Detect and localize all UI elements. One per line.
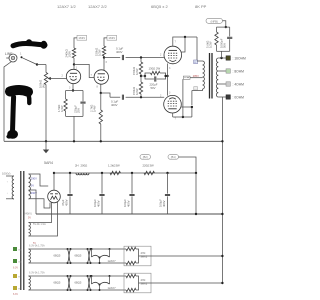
ground symbol xyxy=(43,150,49,154)
svg-text:(B1): (B1) xyxy=(171,155,176,159)
resistor R8 130ohm cathode xyxy=(145,67,166,77)
svg-text:47Ω: 47Ω xyxy=(141,251,146,255)
svg-text:(A): (A) xyxy=(42,84,46,88)
svg-text:130Ω: 130Ω xyxy=(149,67,156,71)
capacitor C8 100uF xyxy=(93,173,104,214)
wire cathode xyxy=(100,84,102,93)
pin 8 label xyxy=(97,86,99,89)
wire NFB loop top xyxy=(217,26,230,28)
label 8OHM xyxy=(233,70,245,74)
wire xyxy=(223,21,226,27)
net label NFB xyxy=(206,18,223,23)
resistor R10 1.2k xyxy=(108,164,121,175)
svg-text:240(V): 240(V) xyxy=(24,212,32,216)
svg-text:6BQ5 x 2: 6BQ5 x 2 xyxy=(151,4,168,9)
label red w2 xyxy=(13,267,18,270)
svg-text:6.3V-0k 1.75A: 6.3V-0k 1.75A xyxy=(29,272,45,275)
svg-text:50V: 50V xyxy=(223,43,227,48)
node upper grid xyxy=(140,56,142,58)
resistor R11 220ohm xyxy=(143,164,155,175)
svg-text:GN: GN xyxy=(18,250,22,252)
node NFB tap xyxy=(220,57,222,59)
triode U1b 12AX7 xyxy=(94,70,108,84)
capacitor C7 47uF xyxy=(61,173,72,214)
wire NFB down xyxy=(221,51,223,58)
wire cathode loop bottom xyxy=(66,115,83,117)
heater 6BQ5 a B xyxy=(54,275,72,291)
rectifier V4 5AR4 xyxy=(48,190,61,203)
svg-text:: 0OHM: : 0OHM xyxy=(233,96,245,100)
color square yellow 2 xyxy=(13,286,21,291)
svg-text:163V: 163V xyxy=(108,36,115,40)
wire cathode loop top xyxy=(66,90,83,92)
wire xyxy=(192,89,203,91)
wire xyxy=(103,56,105,70)
node cathode bus xyxy=(166,75,168,77)
label 285V red xyxy=(193,74,199,78)
svg-text:↑: ↑ xyxy=(7,181,8,184)
PT 5V winding xyxy=(29,223,31,237)
net label B2 xyxy=(140,155,151,160)
PT 6.3V winding B xyxy=(29,276,31,290)
svg-text:6BQ5: 6BQ5 xyxy=(54,254,61,258)
svg-text:3Wx2: 3Wx2 xyxy=(141,282,148,286)
volume pot VR1 100k(A) xyxy=(39,73,52,89)
svg-text:400V: 400V xyxy=(116,50,123,54)
svg-text:1/2W: 1/2W xyxy=(135,88,139,95)
wire screen lower xyxy=(181,107,192,117)
wire heater rail top A xyxy=(29,248,127,250)
wire to ground xyxy=(73,116,75,141)
PSU ground rail xyxy=(36,213,222,215)
node A xyxy=(36,63,38,65)
OPT core xyxy=(210,53,213,99)
svg-text:3Wx2: 3Wx2 xyxy=(141,255,148,259)
pin 1 label xyxy=(76,66,78,69)
resistor R5 2.7k cathode xyxy=(90,93,103,124)
color square yellow 1 xyxy=(13,274,21,279)
wire heater rail top B xyxy=(29,275,127,277)
pin labels V2 xyxy=(160,41,177,71)
node riser psu gnd xyxy=(221,213,223,215)
node c2 xyxy=(101,172,103,174)
marker scribble top xyxy=(11,39,47,49)
svg-text:(B2): (B2) xyxy=(143,155,148,159)
wire xyxy=(74,38,77,48)
wire coupling to V1b grid xyxy=(74,64,94,77)
label 16OHM xyxy=(233,57,246,61)
node tube1 cathode xyxy=(72,89,74,91)
node RC right xyxy=(164,75,166,77)
resistor R2 240k plate xyxy=(65,48,76,58)
svg-text:GN: GN xyxy=(18,262,22,264)
node tube2 cathode xyxy=(100,92,102,94)
node tube2 plate xyxy=(103,56,105,58)
wire heater1 xyxy=(29,202,52,222)
PT primary leads xyxy=(6,176,14,199)
wire HT CT xyxy=(29,190,37,214)
wire hum A xyxy=(151,255,222,257)
jack ground wire xyxy=(4,62,12,142)
label 12AX7 2/2 xyxy=(88,4,107,9)
capacitor C9 100uF xyxy=(123,173,134,214)
svg-text:8K PP: 8K PP xyxy=(195,4,207,9)
label 100V xyxy=(2,172,10,176)
color square green 2 xyxy=(13,259,22,264)
wire NFB loop bottom xyxy=(217,50,230,52)
svg-text:6BQ5: 6BQ5 xyxy=(75,281,82,285)
label 4OHM xyxy=(233,83,245,87)
wire xyxy=(141,75,145,77)
wire plate upper xyxy=(173,37,197,46)
node c4 xyxy=(166,172,168,174)
node c3 xyxy=(131,172,133,174)
svg-text:220Ω: 220Ω xyxy=(143,164,150,168)
voltage box 163V b xyxy=(107,35,117,40)
pentode V2 6BQ5 upper xyxy=(164,46,182,64)
ground stub xyxy=(45,141,47,149)
wire tap 16ohm xyxy=(218,57,226,59)
svg-text:6.3V: 6.3V xyxy=(13,293,18,296)
label 240V xyxy=(24,212,32,220)
svg-text:50V: 50V xyxy=(151,86,156,90)
PT core xyxy=(21,171,24,290)
wire xyxy=(45,65,47,73)
svg-text:(NFB): (NFB) xyxy=(211,19,219,23)
wire tap 4ohm xyxy=(218,83,226,85)
voltage box blue xyxy=(194,60,198,64)
wire xyxy=(52,78,67,80)
label 5AR4 xyxy=(44,161,53,165)
svg-text:3W: 3W xyxy=(116,164,121,168)
choke L1 2H xyxy=(75,164,89,175)
svg-text:1/4W: 1/4W xyxy=(93,105,97,112)
node gnd k2 xyxy=(100,140,102,142)
label LINE xyxy=(5,52,22,57)
resistor R7 150k grid lower xyxy=(132,76,143,97)
PT HT secondary xyxy=(29,174,31,199)
node c1 xyxy=(69,172,71,174)
svg-text:0V: 0V xyxy=(31,184,34,188)
wire HT bottom xyxy=(29,199,51,208)
wire xyxy=(73,58,75,69)
heater 6BQ5 b B xyxy=(75,275,92,291)
label 290V xyxy=(31,176,37,180)
wire xyxy=(126,96,165,98)
marker scribble left xyxy=(6,90,29,139)
wire B+ out xyxy=(53,173,55,190)
resistor R4 150k plate xyxy=(95,46,106,56)
capacitor C4 0.1uF lower xyxy=(111,95,123,107)
wire heater rail bottom A xyxy=(29,262,127,264)
speaker ground riser xyxy=(221,97,223,283)
node bias xyxy=(140,75,142,77)
wire screen upper xyxy=(181,37,185,52)
terminal 8OHM xyxy=(226,69,230,73)
svg-text:290V: 290V xyxy=(31,176,37,180)
svg-text:5V-0k 1.9A: 5V-0k 1.9A xyxy=(33,222,46,226)
resistor R9 5.6k NFB xyxy=(206,27,219,51)
svg-text:400V: 400V xyxy=(126,200,130,207)
svg-text:1/2W: 1/2W xyxy=(98,49,102,56)
wire upper grid line xyxy=(104,57,120,59)
node hum B xyxy=(221,282,223,284)
pin 3 label xyxy=(69,87,71,90)
pin 7 label xyxy=(91,74,93,77)
wire B bus xyxy=(173,116,192,118)
wire tap 8ohm xyxy=(218,70,226,72)
net label B1 xyxy=(168,155,179,160)
label 5V winding xyxy=(33,222,46,226)
svg-text:47Ω: 47Ω xyxy=(141,278,146,282)
svg-text:12AX7 2/2: 12AX7 2/2 xyxy=(88,4,107,9)
svg-text:1/2W: 1/2W xyxy=(209,41,213,48)
node NFB top xyxy=(225,26,227,28)
wire xyxy=(196,37,198,61)
label gray box xyxy=(194,87,198,90)
label 6.3V A xyxy=(29,245,45,248)
label 0OHM xyxy=(233,96,245,100)
svg-text:: 8OHM: : 8OHM xyxy=(233,70,245,74)
label 8K PP xyxy=(195,4,207,9)
color square green 1 xyxy=(13,247,22,252)
svg-text:: 16OHM: : 16OHM xyxy=(233,57,246,61)
pin 2 label xyxy=(62,75,64,78)
svg-text:2W: 2W xyxy=(156,67,161,71)
PT primary coil xyxy=(12,176,14,199)
node B+ out xyxy=(53,172,55,174)
B+ rail xyxy=(54,172,196,174)
triode U1a 12AX7 xyxy=(66,69,80,83)
wire CT riser xyxy=(182,79,184,117)
wire CT xyxy=(190,77,203,79)
node gnd pot xyxy=(45,140,47,142)
ground bus xyxy=(4,140,222,142)
svg-text:100(V): 100(V) xyxy=(2,172,10,176)
capacitor C10 100uF xyxy=(159,173,170,214)
wire heater rail bottom B xyxy=(29,289,127,291)
heater 6BQ5 b A xyxy=(75,248,92,264)
svg-text:12AX7: 12AX7 xyxy=(108,286,117,290)
heater 12AX7 B xyxy=(91,275,117,291)
wire lower plate to OPT xyxy=(191,91,193,106)
wire xyxy=(195,173,197,214)
label red w1 xyxy=(33,242,36,245)
svg-text:1/2W: 1/2W xyxy=(68,51,72,58)
boxed part in CT line xyxy=(183,76,190,79)
hum balance box B xyxy=(124,273,151,293)
OPT secondary coil xyxy=(216,58,218,97)
label red B xyxy=(13,293,18,296)
wire lower grid line xyxy=(110,96,120,98)
pin labels V3 xyxy=(160,91,177,120)
wire plate lower xyxy=(172,113,174,117)
switch lever wire xyxy=(22,58,37,65)
svg-text:3W: 3W xyxy=(150,164,155,168)
wire cathode out xyxy=(101,93,110,97)
svg-text:1/2W: 1/2W xyxy=(135,68,139,75)
capacitor C2 220uF bypass xyxy=(74,91,86,117)
hum balance box A xyxy=(124,246,151,266)
svg-text:6BQ5: 6BQ5 xyxy=(75,254,82,258)
node B rail end xyxy=(195,172,197,174)
svg-text:200Ω: 200Ω xyxy=(81,164,88,168)
wire heater2 xyxy=(29,202,58,236)
capacitor C6 1000pF NFB xyxy=(220,27,233,51)
svg-text:5V: 5V xyxy=(28,216,31,219)
svg-text:6BQ5: 6BQ5 xyxy=(54,281,61,285)
terminal 16OHM xyxy=(226,56,230,60)
svg-text:5AR4: 5AR4 xyxy=(44,161,53,165)
capacitor C5 220uF cathode xyxy=(145,76,166,90)
label 6.3V B xyxy=(29,272,45,275)
label 6BQ5 x 2 xyxy=(151,4,168,9)
heater 6BQ5 a A xyxy=(54,248,72,264)
jack J1 xyxy=(6,54,17,62)
wire xyxy=(166,75,168,77)
svg-text:2H: 2H xyxy=(75,164,79,168)
wire cathode bus xyxy=(167,64,169,96)
wire hum B xyxy=(151,282,222,284)
OPT primary coil xyxy=(197,61,204,89)
node b1 gnd xyxy=(195,213,197,215)
wire to ground xyxy=(100,124,102,141)
svg-text:450V: 450V xyxy=(64,199,68,206)
PT 6.3V winding A xyxy=(29,249,31,263)
wire xyxy=(45,85,47,142)
label 0V xyxy=(31,184,34,188)
resistor R3 1.5k cathode xyxy=(57,91,67,117)
node riser gnd bus xyxy=(221,140,223,142)
node hum A xyxy=(221,255,223,257)
wire HT top xyxy=(29,174,49,186)
terminal 0OHM xyxy=(226,95,230,99)
wire xyxy=(126,57,164,59)
wire tap 0ohm xyxy=(218,96,226,98)
svg-text:1.2kΩ: 1.2kΩ xyxy=(108,164,115,168)
label 290Vb xyxy=(31,191,37,195)
label 12AX7 1/2 xyxy=(57,4,76,9)
node B bus xyxy=(182,116,184,118)
node lower grid xyxy=(140,96,142,98)
svg-text:400V: 400V xyxy=(96,200,100,207)
svg-text:1/4W: 1/4W xyxy=(60,105,64,112)
svg-text:6.3V: 6.3V xyxy=(13,267,18,270)
capacitor C3 0.1uF upper xyxy=(116,47,123,61)
svg-text:↓: ↓ xyxy=(7,192,8,195)
wire cathode xyxy=(72,84,74,91)
heater 12AX7 A xyxy=(91,248,117,264)
svg-text:12AX7 1/2: 12AX7 1/2 xyxy=(57,4,76,9)
svg-text:12AX7: 12AX7 xyxy=(108,259,117,263)
pin 6 label xyxy=(106,61,108,64)
node lower screen xyxy=(191,106,193,108)
node screen join xyxy=(184,36,186,38)
svg-text:400V: 400V xyxy=(111,103,118,107)
wire B1 xyxy=(179,157,197,173)
svg-text:6.3V-0k 1.75A: 6.3V-0k 1.75A xyxy=(29,245,45,248)
svg-text:163V: 163V xyxy=(78,36,85,40)
node tube1 plate xyxy=(73,63,75,65)
wire xyxy=(37,64,46,66)
voltage box 163V xyxy=(77,35,87,40)
switch contact xyxy=(21,56,23,58)
wire xyxy=(104,38,107,46)
svg-text:: 4OHM: : 4OHM xyxy=(233,83,245,87)
resistor R6 150k grid upper xyxy=(132,58,143,77)
svg-text:400V: 400V xyxy=(162,200,166,207)
terminal 4OHM xyxy=(226,82,230,86)
node RC left xyxy=(144,75,146,77)
node gnd k1 xyxy=(73,140,75,142)
pentode V3 6BQ5 lower xyxy=(164,95,182,113)
svg-text:25V: 25V xyxy=(77,108,81,113)
